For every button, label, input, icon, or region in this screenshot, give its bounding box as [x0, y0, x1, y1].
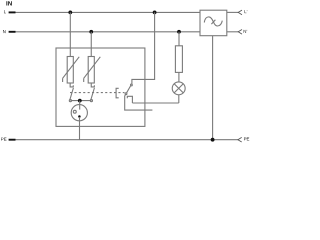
wire pivot stub: [125, 95, 153, 111]
terminal L: [9, 11, 16, 13]
signal contact arm: [127, 86, 131, 93]
svg-text:PE: PE: [244, 136, 250, 141]
svg-text:L: L: [4, 9, 7, 14]
thermal disconnect contact K2 arm: [91, 88, 95, 100]
wire L to varistor RV1: [69, 12, 71, 56]
wire PE bus: [16, 139, 238, 141]
thermal disconnect contact K1 arm: [70, 88, 74, 100]
node common bar junction: [78, 99, 82, 103]
arrow PE out: [238, 137, 242, 142]
wire L to signal contact: [132, 12, 155, 84]
svg-text:PE: PE: [1, 137, 7, 142]
svg-text:L': L': [244, 9, 247, 14]
node L junction 2: [153, 11, 157, 15]
node N junction 1: [89, 30, 93, 34]
power unit slash: [211, 20, 215, 24]
varistor RV2: [84, 57, 101, 84]
varistor RV1: [63, 57, 80, 84]
wire N to varistor RV2: [90, 32, 92, 57]
power unit box: [200, 10, 227, 36]
signal contact upper terminal: [131, 84, 133, 86]
arrow N out: [238, 30, 242, 35]
svg-text:IN: IN: [6, 0, 13, 7]
wire bar to gas discharge tube: [79, 101, 81, 110]
thermal disconnect contact K1 fixed hook: [70, 83, 73, 87]
lamp H1: [172, 82, 185, 95]
wire N out: [227, 31, 238, 33]
power unit sine symbol: [204, 17, 222, 26]
actuator bracket: [116, 88, 119, 98]
wire lamp bottom: [178, 95, 180, 103]
node L junction 1: [68, 11, 72, 15]
wire gas discharge tube to PE: [79, 117, 81, 140]
terminal N: [9, 31, 16, 33]
wire hook to lamp: [132, 102, 178, 104]
thermal disconnect contact K1 terminal: [69, 100, 71, 102]
gas discharge tube F1: [71, 105, 87, 121]
wire L out: [227, 11, 238, 13]
arrow L out: [238, 10, 242, 15]
mechanical link dashed: [70, 92, 125, 94]
node PE junction: [211, 138, 215, 142]
node N junction 2: [177, 30, 181, 34]
thermal disconnect contact K2 fixed hook: [91, 83, 94, 87]
terminal PE: [9, 139, 16, 141]
wire N to resistor R1: [178, 32, 180, 46]
wire box bottom to PE: [212, 36, 214, 140]
wire N bus: [16, 31, 201, 33]
thermal disconnect contact K2 terminal: [90, 100, 92, 102]
svg-text:N: N: [3, 29, 6, 34]
signal contact pivot terminal: [125, 93, 127, 95]
wire common bar: [70, 100, 91, 102]
wire L bus: [16, 11, 201, 13]
svg-text:N': N': [243, 29, 247, 34]
signal contact lower hook terminal: [127, 96, 132, 103]
enclosure box: [56, 48, 145, 126]
wire resistor to lamp: [178, 72, 180, 82]
resistor R1: [175, 46, 182, 73]
